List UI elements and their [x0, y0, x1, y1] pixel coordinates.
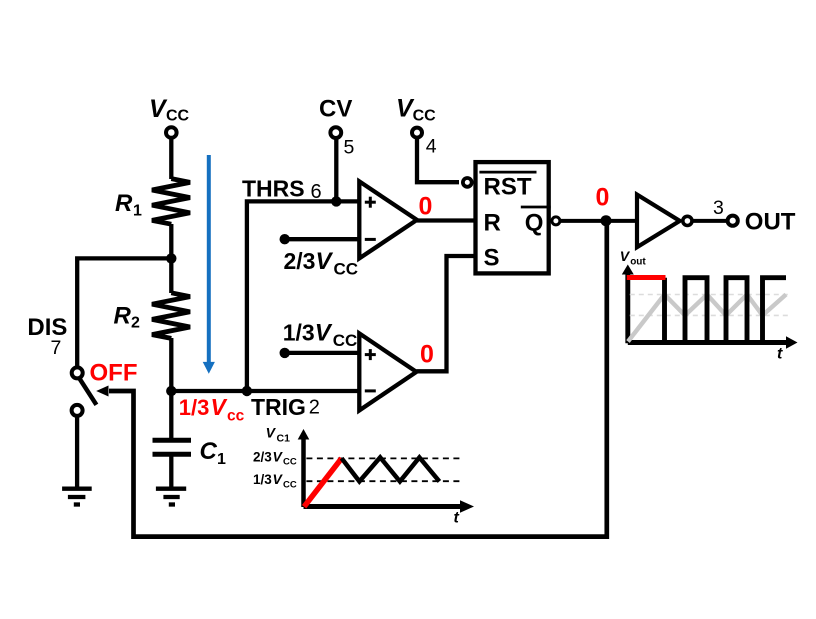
node TRIG junction dot (left): [166, 386, 176, 396]
switch top contact: [72, 367, 83, 378]
Vout plot label: [620, 248, 647, 268]
wire TRIG horizontal: [171, 389, 359, 393]
VC1 label 2/3Vcc: [253, 448, 297, 467]
svg-text:CC: CC: [333, 331, 358, 350]
svg-text:V: V: [316, 248, 334, 275]
wire CV to comparator: [334, 139, 338, 201]
svg-text:2/3: 2/3: [253, 449, 272, 464]
svg-text:RST: RST: [484, 173, 532, 200]
op-amp U1 (threshold comparator): [359, 181, 417, 258]
wire R2 to TRIG node: [169, 338, 173, 391]
VC1 label 1/3Vcc: [253, 471, 297, 490]
svg-text:2: 2: [131, 315, 140, 332]
label R1: [115, 190, 142, 220]
svg-text:V: V: [315, 319, 333, 346]
wire U1 output to R input: [417, 218, 476, 222]
ground (switch): [62, 489, 92, 505]
U1 plus: [365, 197, 376, 208]
label 2/3Vcc: [284, 248, 359, 279]
svg-text:0: 0: [420, 341, 434, 369]
label 1/3Vcc (red, TRIG node): [179, 394, 245, 425]
svg-text:OFF: OFF: [90, 359, 138, 386]
U4 output bubble: [683, 216, 692, 225]
wire U3 output to S input: [416, 256, 475, 371]
terminal VCC (pin 4): [412, 128, 422, 138]
U3 plus: [365, 349, 376, 360]
capacitor C1 wire top: [169, 391, 173, 438]
feedback arrowhead: [96, 386, 108, 397]
terminal VCC (left rail): [166, 127, 177, 138]
VC1 dashed gridline 1/3: [306, 480, 462, 482]
svg-text:V: V: [620, 248, 631, 264]
feedback wire Q to switch: [109, 221, 607, 537]
svg-text:7: 7: [51, 337, 62, 359]
Q output bubble: [552, 217, 560, 225]
svg-text:2/3: 2/3: [284, 248, 316, 274]
Vout square wave: [665, 278, 787, 343]
svg-text:S: S: [484, 244, 500, 271]
inverter U4: [637, 195, 680, 248]
wire C1 to ground: [169, 456, 173, 488]
Vout gray capacitor wave: [628, 295, 786, 342]
svg-text:t: t: [454, 510, 460, 527]
svg-text:C1: C1: [277, 433, 291, 445]
svg-text:CC: CC: [283, 457, 297, 468]
svg-text:0: 0: [596, 184, 610, 212]
RST overline: [479, 171, 536, 174]
wire junction to DIS rail: [77, 258, 171, 368]
svg-text:3: 3: [713, 197, 724, 219]
node VCC label (left rail): [149, 95, 190, 125]
Vout dashed gridline 2/3: [630, 294, 789, 296]
wire VCC to R1: [169, 138, 173, 179]
svg-text:R: R: [115, 190, 133, 217]
op-amp U3 (trigger comparator): [359, 333, 416, 410]
svg-text:OUT: OUT: [745, 208, 796, 235]
svg-text:CC: CC: [166, 108, 190, 125]
svg-text:CV: CV: [319, 96, 352, 123]
svg-text:DIS: DIS: [27, 314, 67, 341]
label 1/3Vcc (U3 input): [283, 319, 358, 350]
svg-text:4: 4: [426, 136, 437, 158]
wire VCC to RST: [417, 138, 459, 182]
node DIS junction dot: [166, 253, 176, 263]
svg-text:CC: CC: [413, 108, 437, 125]
svg-text:TRIG: TRIG: [251, 394, 306, 420]
svg-text:1: 1: [217, 451, 226, 468]
svg-text:1/3: 1/3: [179, 395, 210, 420]
label C1: [200, 438, 227, 468]
node 1/3Vcc dot: [280, 348, 290, 358]
label R2: [114, 302, 141, 331]
Vout plot y-axis: [622, 265, 634, 344]
VC1 plot y-axis: [298, 429, 310, 507]
svg-text:cc: cc: [227, 408, 245, 425]
U3 minus: [365, 389, 376, 392]
svg-text:1: 1: [133, 203, 142, 220]
wire U4 to OUT: [692, 219, 728, 223]
terminal CV: [330, 127, 341, 138]
resistor R2: [152, 293, 190, 339]
RST inverter bubble: [463, 178, 472, 187]
node 2/3Vcc dot: [280, 234, 290, 244]
flip-flop U2 box: [476, 162, 549, 273]
switch bottom contact: [72, 405, 83, 416]
svg-text:6: 6: [311, 181, 322, 203]
wire switch to ground: [75, 416, 79, 488]
svg-text:CC: CC: [334, 260, 359, 279]
svg-text:1/3: 1/3: [283, 319, 315, 345]
svg-text:R: R: [114, 302, 132, 329]
svg-text:V: V: [266, 425, 277, 441]
Q overline: [521, 206, 551, 209]
capacitor C1: [153, 440, 192, 454]
VC1 plot x-axis: [304, 500, 475, 512]
resistor R1: [152, 179, 190, 225]
svg-text:0: 0: [419, 192, 433, 220]
svg-text:V: V: [211, 394, 228, 420]
svg-text:5: 5: [344, 137, 355, 159]
node VCC label (pin 4): [396, 94, 436, 124]
svg-text:R: R: [484, 209, 501, 236]
U1 minus: [365, 238, 376, 241]
VC1 plot label: [266, 425, 290, 445]
VC1 triangle wave: [342, 457, 440, 481]
wire 1/3Vcc input: [285, 351, 360, 355]
Vout plot x-axis: [628, 336, 798, 348]
wire R1 to R2: [169, 224, 173, 293]
svg-text:C: C: [200, 438, 218, 465]
wire 2/3Vcc input: [285, 237, 360, 241]
svg-text:Q: Q: [525, 209, 544, 236]
VC1 red charge ramp: [304, 458, 342, 506]
ground (C1): [156, 489, 186, 505]
svg-text:out: out: [630, 257, 646, 268]
switch blade: [79, 377, 97, 405]
svg-text:1/3: 1/3: [253, 472, 272, 487]
Vout red high segment: [627, 275, 666, 280]
svg-text:THRS: THRS: [242, 176, 305, 202]
terminal OUT: [728, 216, 738, 226]
node Q junction dot: [601, 215, 612, 226]
wire THRS riser: [247, 201, 359, 391]
svg-text:2: 2: [309, 397, 320, 419]
node TRIG junction dot (right): [242, 386, 252, 396]
wire Q to inverter: [560, 219, 637, 223]
blue discharge arrow: [203, 155, 215, 374]
svg-text:CC: CC: [283, 479, 297, 490]
svg-text:t: t: [777, 346, 783, 363]
VC1 dashed gridline 2/3: [306, 457, 462, 459]
Vout dashed gridline 1/3: [630, 314, 789, 316]
node CV junction dot: [331, 196, 341, 206]
